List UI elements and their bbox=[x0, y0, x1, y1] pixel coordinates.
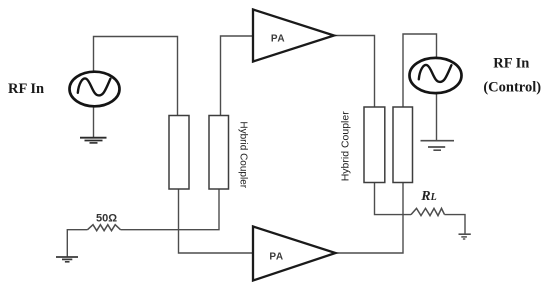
svg-text:RF In: RF In bbox=[8, 81, 44, 97]
ground for 50ohm resistor bbox=[56, 257, 78, 262]
ground for source V2 bbox=[421, 141, 455, 151]
wire from right coupler port 2 to source V2 top bbox=[403, 34, 437, 107]
op-amp PA top (triangle) bbox=[253, 10, 334, 62]
resistor RL bbox=[411, 208, 445, 215]
svg-text:Hybrid Coupler: Hybrid Coupler bbox=[238, 121, 249, 188]
ground for source V1 bbox=[80, 138, 107, 143]
AC source V2 (RF In Control) bbox=[410, 58, 462, 93]
op-amp PA bottom (triangle) bbox=[253, 227, 336, 281]
wire from source V1 top to left coupler port 1 bbox=[94, 37, 178, 116]
wire from left coupler port 3 to bottom PA input bbox=[179, 189, 254, 253]
svg-text:PA: PA bbox=[271, 34, 285, 45]
svg-text:Hybrid Coupler: Hybrid Coupler bbox=[339, 111, 351, 182]
svg-text:50Ω: 50Ω bbox=[96, 213, 117, 225]
ground for RL bbox=[459, 234, 471, 239]
wire from left coupler port 2 to top PA input bbox=[221, 36, 254, 116]
hybrid coupler left: line 2 rectangle bbox=[209, 116, 229, 190]
AC source V1 (RF In) bbox=[70, 72, 120, 107]
wire from resistor 50ohm to left coupler port 4 bbox=[121, 189, 220, 230]
hybrid coupler right: line 1 rectangle bbox=[364, 107, 385, 183]
wire from right coupler port 3 to resistor RL bbox=[375, 183, 412, 215]
hybrid coupler right: line 2 rectangle bbox=[393, 107, 413, 183]
wire from top PA output to right coupler port 1 bbox=[334, 36, 375, 108]
wire from source V1 bottom to ground bbox=[93, 106, 95, 138]
wire from ground to resistor 50ohm bbox=[67, 230, 87, 257]
svg-text:PA: PA bbox=[269, 252, 283, 263]
wire from bottom PA output to right coupler port 4 bbox=[336, 183, 404, 254]
svg-text:RF In: RF In bbox=[493, 55, 529, 71]
svg-text:RL: RL bbox=[420, 189, 436, 204]
wire from resistor RL to ground bbox=[445, 215, 466, 234]
svg-text:(Control): (Control) bbox=[483, 79, 541, 95]
wire from source V2 bottom to ground bbox=[436, 93, 438, 141]
resistor 50ohm bbox=[88, 225, 121, 231]
hybrid coupler left: line 1 rectangle bbox=[169, 116, 189, 190]
